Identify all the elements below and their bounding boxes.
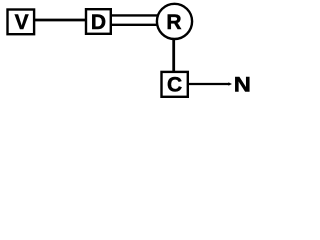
svg-text:N: N	[234, 73, 251, 96]
node V	[8, 10, 35, 35]
node D	[86, 9, 111, 34]
node N (unboxed label)	[234, 73, 251, 96]
double wire D-R	[110, 15, 159, 24]
node C	[162, 72, 188, 97]
svg-text:V: V	[15, 11, 29, 34]
wire R-C	[172, 38, 175, 72]
svg-text:C: C	[167, 73, 182, 96]
svg-text:D: D	[91, 11, 106, 34]
wire V-D	[33, 19, 87, 22]
wire C-N with arrowhead	[188, 82, 232, 86]
svg-text:R: R	[166, 11, 181, 34]
node R	[157, 4, 192, 39]
